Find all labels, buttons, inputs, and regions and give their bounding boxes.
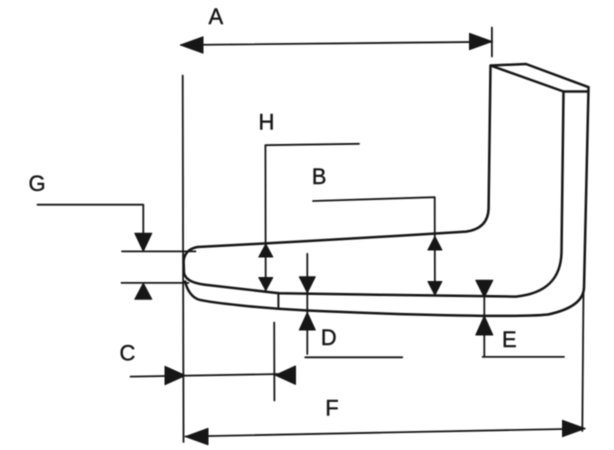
D arrow down bbox=[299, 277, 315, 293]
G arrow down bbox=[135, 233, 152, 251]
D arrow up bbox=[299, 313, 315, 331]
taper-end tick bbox=[277, 293, 279, 308]
svg-text:C: C bbox=[120, 340, 136, 365]
svg-text:G: G bbox=[29, 171, 46, 196]
E vertical bbox=[483, 282, 485, 357]
G leader bbox=[38, 205, 144, 234]
dim line C bbox=[131, 374, 294, 377]
E arrow down bbox=[476, 280, 493, 297]
arrow C left bbox=[275, 366, 295, 384]
dim line F bbox=[186, 429, 585, 437]
left extension line bbox=[182, 76, 185, 443]
D vertical bbox=[306, 254, 308, 354]
H leader bbox=[265, 144, 359, 291]
shank top face bbox=[491, 64, 589, 92]
G lower tick bbox=[122, 282, 189, 284]
svg-text:E: E bbox=[502, 327, 517, 352]
B arrow up bbox=[428, 236, 442, 250]
D underline bbox=[305, 356, 402, 358]
G arrow up bbox=[135, 283, 152, 299]
svg-text:A: A bbox=[209, 4, 224, 29]
C right extension bbox=[273, 323, 275, 401]
right extension line bbox=[582, 289, 583, 431]
fork near-face silhouette bbox=[184, 66, 564, 297]
dim line A bbox=[181, 42, 492, 45]
arrow A right bbox=[470, 33, 493, 49]
svg-text:H: H bbox=[259, 109, 275, 134]
B arrow down bbox=[428, 282, 442, 296]
far back edge, far heel curve, far bottom edge bbox=[185, 89, 588, 316]
H arrow up bbox=[259, 244, 273, 257]
E underline bbox=[483, 356, 564, 358]
arrow C right bbox=[165, 366, 185, 384]
E arrow up bbox=[476, 316, 493, 335]
H arrow down bbox=[259, 278, 273, 291]
arrow F right bbox=[563, 420, 586, 436]
svg-text:D: D bbox=[321, 325, 337, 350]
svg-text:B: B bbox=[312, 164, 327, 189]
arrow F left bbox=[186, 428, 209, 444]
tick at A right bbox=[491, 28, 493, 57]
arrow A left bbox=[181, 37, 204, 53]
G upper tick bbox=[122, 250, 196, 252]
svg-text:F: F bbox=[325, 396, 338, 421]
B leader bbox=[313, 197, 435, 295]
